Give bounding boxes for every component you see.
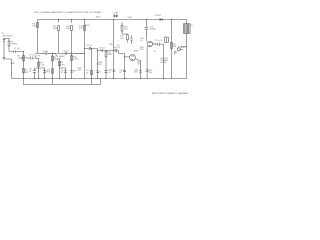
svg-text:C9 .05: C9 .05 <box>99 47 106 49</box>
svg-text:5Y3GT: 5Y3GT <box>155 15 162 17</box>
svg-text:250: 250 <box>134 72 138 74</box>
svg-text:C1 .02: C1 .02 <box>14 48 21 50</box>
svg-text:500K: 500K <box>54 59 59 61</box>
svg-text:C6 .02: C6 .02 <box>63 50 70 52</box>
svg-text:100K: 100K <box>32 26 37 28</box>
svg-text:10K: 10K <box>120 38 124 40</box>
svg-text:C7 .05: C7 .05 <box>86 45 93 47</box>
svg-text:470: 470 <box>78 70 82 72</box>
svg-text:Z=5000: Z=5000 <box>160 62 166 64</box>
svg-text:100K: 100K <box>66 28 71 30</box>
svg-text:GND: GND <box>11 63 16 65</box>
svg-text:6SL7: 6SL7 <box>61 56 67 58</box>
svg-text:470: 470 <box>73 71 77 73</box>
svg-text:500K: 500K <box>107 54 112 56</box>
svg-text:C4 .02: C4 .02 <box>42 51 49 53</box>
svg-text:25: 25 <box>108 72 111 74</box>
svg-text:250: 250 <box>149 72 153 74</box>
svg-text:MIC INPUT: MIC INPUT <box>3 35 14 37</box>
svg-text:22K: 22K <box>124 29 128 31</box>
svg-text:365V: 365V <box>85 25 90 27</box>
svg-text:1 MEG: 1 MEG <box>18 58 25 60</box>
svg-text:T2: T2 <box>190 25 193 27</box>
svg-text:25: 25 <box>29 71 32 73</box>
svg-text:320V: 320V <box>127 17 132 19</box>
svg-text:365V: 365V <box>96 17 101 19</box>
svg-text:250K: 250K <box>73 59 78 61</box>
svg-text:AMPLIFIER SCHEMATIC DIAGRAM: AMPLIFIER SCHEMATIC DIAGRAM <box>152 92 188 95</box>
svg-text:GT: GT <box>153 51 156 53</box>
svg-text:2.7K: 2.7K <box>61 64 66 66</box>
svg-text:47K: 47K <box>79 28 83 30</box>
svg-text:PM: PM <box>181 49 184 51</box>
svg-text:1. ALL VOLTAGES MEASURED TO CH: 1. ALL VOLTAGES MEASURED TO CHASSIS WITH… <box>33 11 102 14</box>
svg-text:20: 20 <box>140 40 143 42</box>
svg-text:6V6: 6V6 <box>153 43 157 45</box>
svg-text:22K: 22K <box>140 49 144 51</box>
svg-text:C2 .01: C2 .01 <box>29 54 36 56</box>
svg-text:10K: 10K <box>173 46 177 48</box>
svg-text:25: 25 <box>99 71 101 73</box>
svg-text:5 MEG: 5 MEG <box>11 44 18 46</box>
svg-text:2.7K: 2.7K <box>40 65 45 67</box>
svg-text:GT: GT <box>137 64 141 66</box>
svg-text:L1 8H: L1 8H <box>113 12 119 14</box>
svg-text:25: 25 <box>119 72 122 74</box>
svg-text:6SN7: 6SN7 <box>133 50 139 52</box>
svg-text:100K: 100K <box>53 28 58 30</box>
svg-text:25: 25 <box>86 72 88 74</box>
svg-text:C15 .02: C15 .02 <box>155 40 163 42</box>
svg-text:SW: SW <box>98 64 101 66</box>
svg-text:25: 25 <box>61 72 64 74</box>
svg-text:20/450: 20/450 <box>150 29 157 31</box>
svg-text:470: 470 <box>47 72 51 74</box>
